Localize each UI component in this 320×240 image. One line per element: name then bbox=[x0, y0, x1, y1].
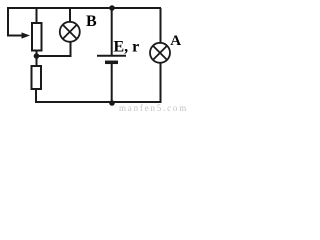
battery E,r short plate (-) bbox=[105, 61, 118, 65]
battery E,r long plate (+) bbox=[97, 55, 126, 57]
lamp B (circle with X) bbox=[60, 22, 80, 42]
wire battery branch lower bbox=[111, 64, 113, 103]
wire stub lamp B bottom bbox=[70, 41, 72, 57]
junction dot below R1 bbox=[34, 53, 40, 59]
wire from R1 bottom to junction bbox=[36, 51, 38, 67]
wire right edge upper (top corner down to lamp A) bbox=[160, 8, 162, 44]
wire stub from top wire to rheostat R1 top bbox=[36, 8, 38, 23]
wire top (from left corner to right corner) bbox=[7, 7, 161, 9]
node dot battery-to-bottom-wire bbox=[109, 100, 115, 106]
svg-text:manfen5.com: manfen5.com bbox=[119, 103, 188, 112]
rheostat R1 box bbox=[32, 23, 42, 51]
wire bottom (from R2 corner to right corner) bbox=[36, 101, 162, 103]
resistor R2 box bbox=[32, 66, 42, 89]
wire battery branch upper bbox=[111, 8, 113, 55]
rheostat wiper arrow bbox=[7, 32, 30, 38]
wire from junction right to lamp B branch bbox=[37, 55, 71, 57]
node dot battery-to-top-wire bbox=[109, 5, 115, 11]
wire from R2 bottom to bottom wire bbox=[35, 89, 37, 103]
wire stub lamp B top bbox=[69, 8, 71, 22]
wire right edge lower (lamp A down to bottom corner) bbox=[160, 62, 162, 103]
svg-text:B: B bbox=[86, 13, 97, 30]
svg-text:E, r: E, r bbox=[114, 39, 140, 56]
wire left edge (top-left corner down to wiper level) bbox=[7, 7, 9, 35]
svg-text:A: A bbox=[170, 33, 181, 49]
lamp A (circle with X) bbox=[150, 43, 170, 63]
